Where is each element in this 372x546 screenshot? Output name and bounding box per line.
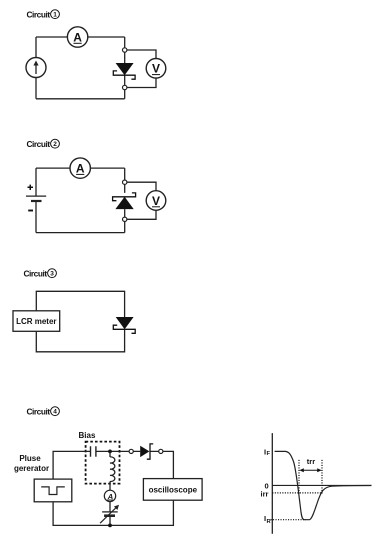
svg-text:LCR meter: LCR meter — [16, 317, 56, 326]
svg-text:oscilloscope: oscilloscope — [149, 485, 198, 494]
wire: circuit1 voltmeter branch — [127, 50, 156, 88]
dotted vertical line t0 — [298, 460, 300, 495]
wire: circuit1 top wire — [36, 36, 125, 38]
svg-text:2: 2 — [53, 141, 57, 148]
voltmeter V (circuit1) — [146, 59, 166, 79]
node (circuit1 lower) — [123, 85, 127, 89]
label IF — [264, 447, 271, 457]
wire: circuit3 loop — [36, 291, 124, 352]
current source (circuit1) — [26, 58, 46, 78]
label Circuit 3 — [24, 269, 57, 279]
inductor L (bias box) — [110, 451, 115, 490]
zener diode D (circuit1) — [113, 63, 135, 79]
node (circuit4 left of diode) — [129, 449, 133, 453]
wire: circuit4 bottom wire — [53, 500, 173, 525]
label Pluse gererator — [14, 454, 49, 473]
oscilloscope box — [143, 479, 202, 501]
graph 0-axis — [272, 484, 371, 486]
label Circuit 4 — [27, 407, 60, 417]
junction (bias box) — [108, 450, 112, 454]
wire: circuit2 left wire — [35, 168, 37, 233]
label Bias — [79, 431, 96, 440]
trr arrow — [299, 468, 321, 472]
wire: circuit4 top wire — [53, 451, 173, 479]
waveform curve — [275, 451, 372, 519]
ammeter A (circuit1) — [67, 27, 87, 47]
zener diode D (circuit2) — [113, 193, 136, 209]
wire: circuit1 left wire — [35, 37, 37, 99]
bias dashed box — [86, 442, 120, 484]
svg-text:Circuit: Circuit — [27, 407, 51, 417]
svg-text:irr: irr — [261, 490, 269, 499]
capacitor C (bias box) — [91, 446, 96, 457]
label 0 — [265, 481, 269, 490]
dotted irr level line — [272, 492, 322, 494]
label Circuit 1 — [27, 10, 60, 20]
dotted IR level line — [271, 519, 307, 521]
wire: circuit2 voltmeter branch — [127, 182, 156, 219]
wire: circuit1 right wire — [124, 37, 126, 99]
node (circuit2 lower) — [123, 217, 127, 221]
svg-text:Bias: Bias — [79, 431, 96, 440]
junction (circuit4 bottom) — [108, 524, 112, 528]
zener diode D (circuit3) — [113, 317, 135, 333]
wire: circuit2 bottom wire — [36, 232, 125, 234]
svg-text:Circuit: Circuit — [27, 139, 51, 149]
svg-text:4: 4 — [53, 409, 57, 416]
svg-text:Pluse: Pluse — [19, 454, 41, 463]
svg-text:F: F — [267, 451, 271, 457]
diode D (circuit4) — [140, 444, 153, 459]
wire: ammeter to capacitor — [109, 502, 111, 512]
svg-text:3: 3 — [50, 271, 54, 278]
svg-text:A: A — [76, 162, 85, 176]
node (circuit4 right of diode) — [159, 449, 163, 453]
voltmeter V (circuit2) — [146, 191, 166, 211]
variable capacitor (circuit4) — [100, 505, 119, 523]
svg-text:V: V — [152, 62, 160, 76]
wire: circuit2 right wire — [124, 168, 126, 233]
label irr — [261, 490, 269, 499]
label IR — [264, 514, 272, 525]
ammeter A (circuit2) — [70, 158, 90, 178]
graph y-axis — [271, 433, 273, 534]
ammeter A (circuit4) — [104, 490, 115, 501]
pulse generator box — [34, 479, 72, 502]
node (circuit2 upper) — [123, 180, 127, 184]
svg-text:Circuit: Circuit — [27, 10, 51, 20]
node (circuit1 upper) — [123, 48, 127, 52]
wire: circuit2 top wire — [36, 167, 125, 169]
label trr — [307, 457, 315, 466]
svg-text:trr: trr — [307, 457, 315, 466]
dotted vertical line t1 — [321, 460, 323, 495]
svg-text:1: 1 — [53, 12, 57, 19]
svg-text:gererator: gererator — [14, 464, 49, 473]
svg-text:A: A — [73, 30, 82, 44]
LCR meter box — [13, 311, 60, 332]
wire: circuit1 bottom wire — [36, 98, 125, 100]
label Circuit 2 — [27, 139, 60, 149]
battery (circuit2) — [26, 185, 46, 211]
svg-text:V: V — [152, 194, 160, 208]
svg-text:Circuit: Circuit — [24, 269, 48, 279]
